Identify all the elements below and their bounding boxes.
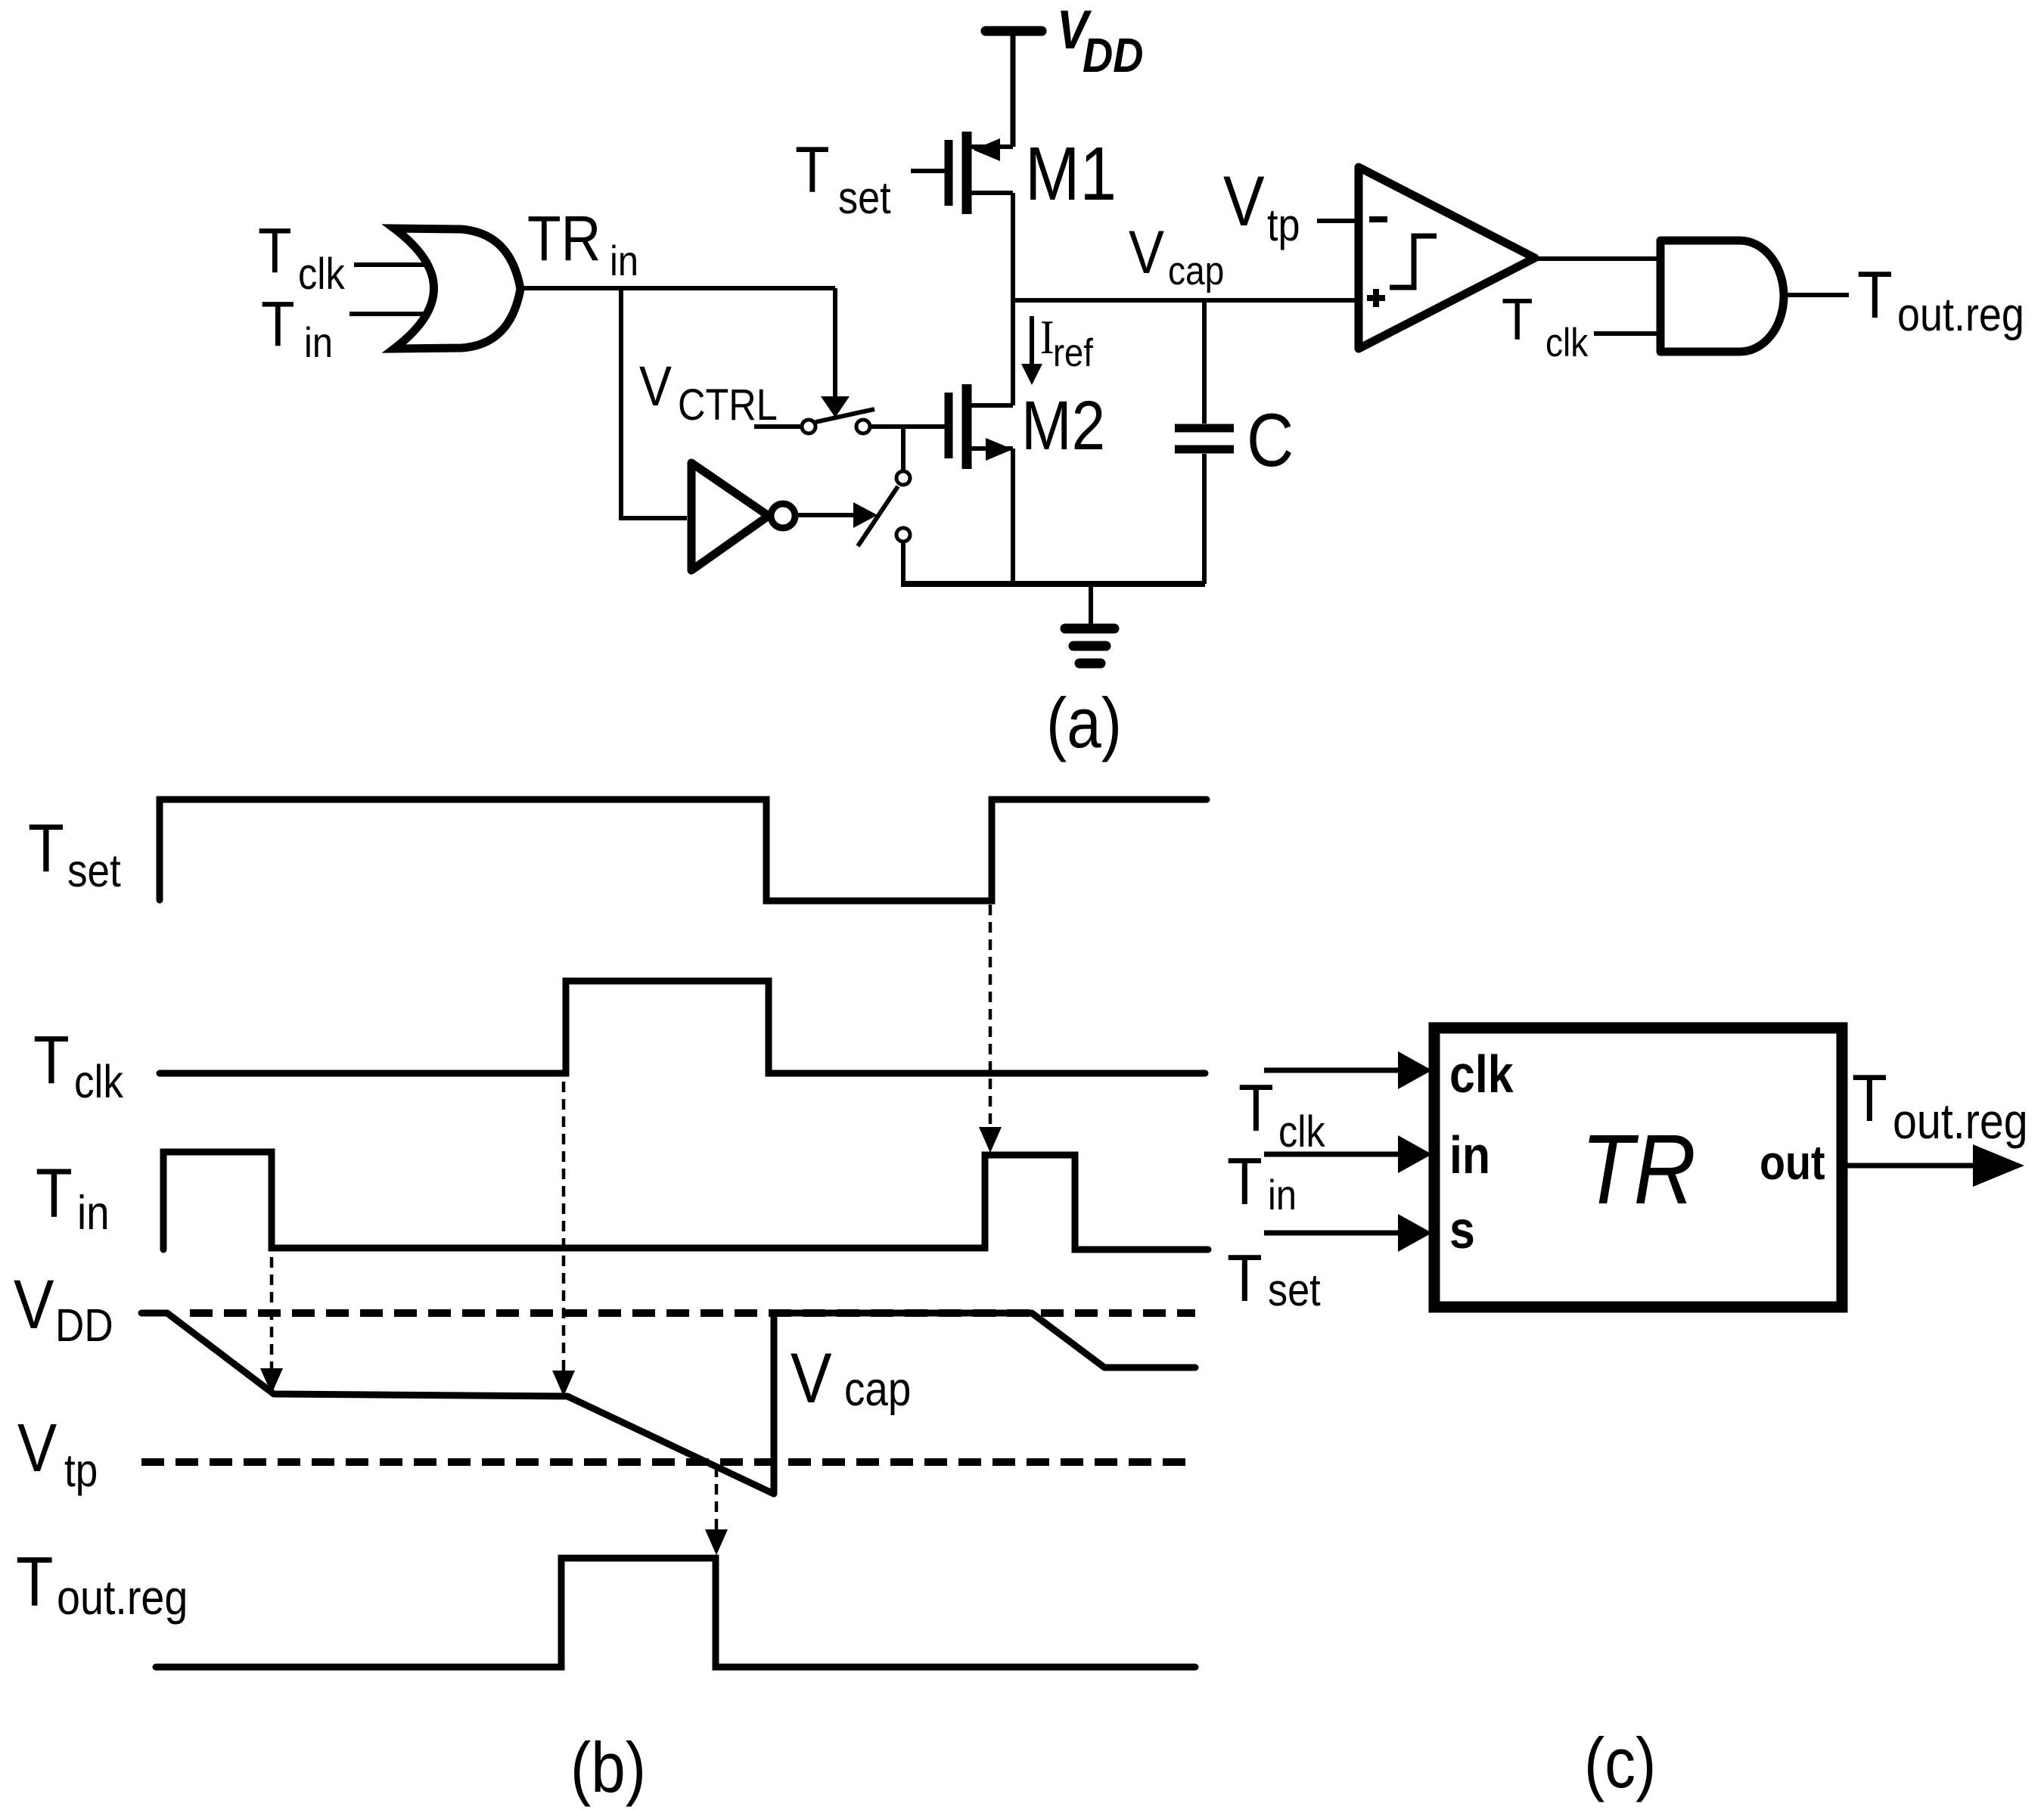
port label in [1449,1125,1490,1184]
svg-text:T: T [1227,1144,1263,1219]
wire VDD to M1 source [1011,36,1016,147]
label Tclk (c) [1238,1071,1325,1156]
svg-text:T: T [261,288,295,359]
svg-text:set: set [838,172,891,223]
node TRin wire (OR output) [520,286,835,290]
wire TRin down to switch S1 control arrow [833,288,837,396]
current Iref arrow [1030,316,1034,366]
svg-text:V: V [1129,218,1164,287]
output arrow [1843,1163,1976,1169]
label Tset (M1 gate) [795,134,891,223]
ground symbol [1089,584,1093,624]
svg-text:(a): (a) [1046,683,1122,763]
TR block box [1434,1028,1842,1307]
node Vcap wire to comparator [1013,298,1359,303]
dashed arrow Tin fall to Vcap [270,1257,274,1371]
label Tin (c) [1227,1144,1297,1219]
label TR [1581,1115,1696,1225]
svg-text:clk: clk [1545,320,1588,365]
svg-text:M1: M1 [1025,131,1117,216]
svg-text:M2: M2 [1021,387,1105,464]
svg-text:out.reg: out.reg [1893,1094,2028,1150]
wire inverter output to switch S2 arrow [796,513,855,517]
label Tout.reg (circuit output) [1857,258,2024,341]
label (c) [1584,1723,1656,1803]
wire M1 drain to M2 drain [1011,193,1015,405]
label Tout.reg (timing) [16,1543,188,1625]
svg-text:T: T [1227,1241,1263,1315]
svg-text:in: in [1268,1172,1297,1219]
waveform Tset [160,799,1207,901]
label Vcap (timing) [791,1338,911,1418]
label Tclk (OR input) [258,215,345,299]
dashed arrow Tclk rise to Vcap [562,1082,566,1371]
wire gate node down to switch S2 [901,427,906,470]
label (b) [570,1728,646,1808]
dashed arrow Vtp crossing to Tout.reg fall [715,1467,719,1531]
svg-text:V: V [17,1410,57,1486]
svg-text:V: V [1223,161,1265,241]
label Tclk (timing) [33,1022,123,1108]
wire Tin input to OR gate [349,312,443,316]
comparator minus sign [1369,216,1387,222]
svg-text:V: V [791,1338,832,1418]
transistor M1 (PMOS) [945,140,953,206]
OR gate U1 [394,228,520,349]
wire S1 to M2 gate [870,424,945,429]
svg-text:cap: cap [1168,248,1224,293]
label Vtp (comparator minus input) [1223,161,1300,250]
transistor M2 (NMOS) [945,393,953,458]
capacitor C1 [1202,300,1207,424]
VDD dashed level line [190,1309,1195,1317]
svg-text:T: T [1852,1061,1887,1135]
label Vtp (timing) [17,1410,98,1497]
wire switch S2 to ground rail [901,542,906,584]
wire Tclk input to OR gate [354,262,443,267]
label Vcap [1129,218,1224,293]
port label s [1449,1200,1475,1259]
svg-text:CTRL: CTRL [678,380,778,430]
switch S1 lever [815,409,874,422]
svg-text:(c): (c) [1584,1723,1656,1803]
comparator U3 [1359,167,1535,349]
svg-text:DD: DD [1083,28,1143,82]
wire Vtp to comparator [1317,219,1359,223]
AND gate U4 [1660,241,1784,352]
svg-text:C: C [1247,398,1294,482]
power VDD symbol [986,26,1042,36]
input arrow in [1264,1152,1401,1157]
dashed arrow Tset rise to Tin pulse [989,905,992,1129]
svg-text:T: T [36,1155,73,1232]
wire AND output [1784,293,1849,297]
svg-text:T: T [795,134,830,206]
svg-text:tp: tp [64,1445,98,1497]
label VDD (timing) [14,1266,113,1352]
switch S1 (VCTRL) left lead [754,424,800,429]
svg-text:out: out [1760,1135,1825,1189]
port label clk [1449,1045,1514,1104]
label Tin (OR input) [261,288,333,367]
input arrow clk [1264,1068,1401,1073]
svg-text:out.reg: out.reg [57,1570,188,1624]
waveform Vcap [141,1313,1195,1494]
svg-text:T: T [258,215,292,286]
svg-text:clk: clk [298,250,345,299]
svg-text:V: V [639,355,672,418]
comparator plus sign [1367,295,1385,301]
svg-text:ref: ref [1053,331,1093,375]
switch S1 contacts [802,420,815,433]
inverter U2 [691,463,769,570]
wire M2 source to ground rail [1011,449,1015,584]
label Tin (timing) [36,1155,110,1240]
wire comparator output to AND gate [1535,256,1660,261]
svg-text:I: I [1040,310,1055,363]
svg-text:T: T [33,1022,70,1097]
switch S2 contacts [896,471,910,485]
waveform Tout.reg [156,1558,1195,1667]
wire TRin down to inverter input [621,288,687,518]
wire Tclk to AND gate [1594,331,1660,336]
svg-text:set: set [67,846,121,897]
svg-text:clk: clk [1449,1045,1514,1104]
svg-text:V: V [14,1266,54,1343]
svg-text:DD: DD [55,1300,113,1352]
svg-text:s: s [1449,1200,1475,1259]
svg-text:cap: cap [844,1362,911,1415]
svg-text:(b): (b) [570,1728,646,1808]
svg-text:in: in [304,319,333,367]
input arrow s [1264,1231,1401,1236]
svg-text:clk: clk [74,1057,123,1108]
label TRin [527,203,638,285]
svg-text:clk: clk [1278,1107,1325,1156]
svg-text:in: in [610,238,638,285]
waveform Tin [163,1152,1208,1250]
Vtp dashed level line [141,1458,1195,1466]
svg-text:T: T [28,810,64,886]
svg-text:T: T [1238,1071,1274,1145]
port label out [1760,1135,1825,1189]
label Tset (c) [1227,1241,1321,1315]
svg-text:set: set [1268,1265,1321,1315]
svg-text:tp: tp [1267,200,1300,250]
comparator hysteresis step symbol [1390,236,1437,287]
svg-text:TR: TR [527,203,601,274]
ground rail [901,581,1205,587]
label Tset (timing) [28,810,121,897]
svg-text:T: T [1502,287,1533,352]
label VDD [1057,0,1143,82]
switch S2 lever [858,486,898,546]
svg-text:T: T [16,1543,53,1621]
svg-text:in: in [1449,1125,1490,1184]
svg-text:out.reg: out.reg [1897,289,2024,341]
label (a) [1046,683,1122,763]
svg-text:T: T [1857,258,1893,332]
waveform Tclk [160,981,1205,1073]
label Tclk (AND input) [1502,287,1588,365]
svg-text:TR: TR [1581,1115,1696,1225]
svg-text:in: in [77,1186,110,1239]
label VCTRL [639,355,778,430]
label Tout.reg (c) [1852,1061,2028,1150]
